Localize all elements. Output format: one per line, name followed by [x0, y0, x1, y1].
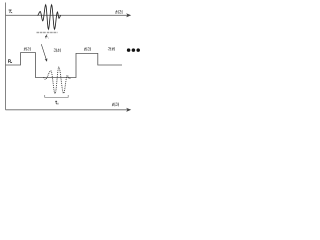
dotted echo wavelet: [44, 67, 71, 93]
top axis arrowhead: [126, 13, 131, 17]
caption under wavelet: [37, 32, 58, 33]
left vertical axis: [5, 3, 7, 110]
bottom time axis: [6, 109, 129, 111]
transmitted ultrasonic wavelet: [38, 5, 61, 29]
t1 label: [55, 101, 58, 105]
top Tx time axis: [6, 14, 129, 16]
top axis label (시간): [115, 10, 122, 14]
Tx label: [9, 10, 13, 13]
Rx gate square-wave trace: [6, 53, 123, 78]
continuation dots: [127, 48, 140, 52]
label above pulse 2 (송신): [84, 47, 90, 51]
Rx label: [9, 60, 13, 63]
bottom axis label (시간): [112, 103, 119, 107]
label near arrow (반사): [54, 49, 60, 53]
bottom axis arrowhead: [126, 108, 131, 112]
annotation arrow to echo: [41, 44, 46, 59]
f0 mark under caption: [45, 35, 48, 39]
label right of pulse 2 (수신): [108, 47, 115, 51]
label above pulse 1 (송신): [24, 47, 30, 51]
echo duration bracket: [45, 95, 68, 97]
